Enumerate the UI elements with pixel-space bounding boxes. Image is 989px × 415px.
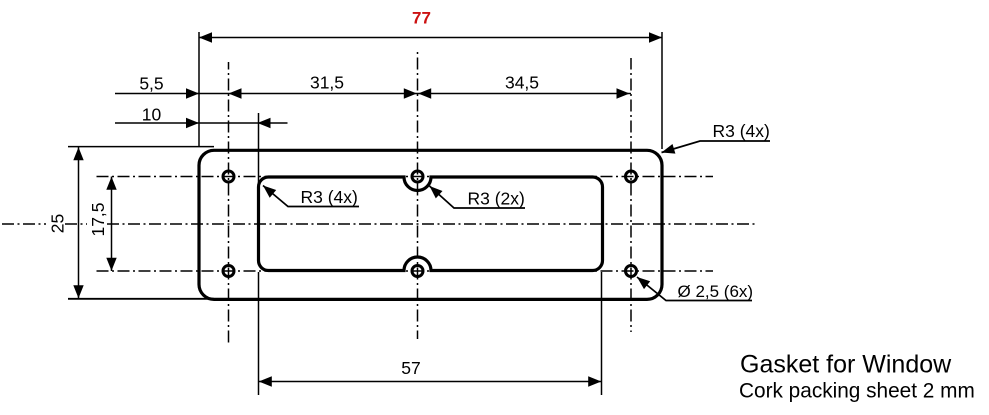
leader R3 (2x) notch arc: [430, 186, 526, 208]
gasket outer outline rounded rectangle 77x25: [199, 150, 662, 299]
centerline vertical middle holes x=417.5: [417, 51, 419, 339]
arrowhead 17,5 down: [106, 258, 116, 271]
arrowhead 77 left: [199, 32, 212, 42]
arrowhead 34,5 right (at x=630): [617, 88, 630, 98]
svg-text:Cork packing sheet 2 mm: Cork packing sheet 2 mm: [739, 380, 975, 403]
hole top-right 2,5: [626, 171, 637, 182]
arrowhead 77 right: [649, 32, 662, 42]
arrowhead 34,5 left (at x=418): [418, 88, 431, 98]
svg-text:Gasket for Window: Gasket for Window: [740, 351, 952, 379]
label 25 (rotated): [46, 211, 65, 236]
extension line upper for 10 dim (cutout left edge produced): [258, 113, 260, 186]
dimension line 25 x=78.5: [78, 147, 80, 299]
svg-text:R3 (4x): R3 (4x): [713, 121, 770, 141]
arrowhead 25 down: [73, 285, 83, 298]
centerline horizontal bottom hole row y=271: [93, 270, 713, 272]
leader R3 (4x) inner corner: [263, 186, 359, 207]
extension line left for 77 dim: [198, 32, 200, 147]
gasket inner window cutout with R3 notches: [259, 177, 603, 271]
dimension line 10 y=123: [115, 122, 288, 124]
leader diameter 2,5 hole: [637, 277, 752, 301]
centerline horizontal top hole row y=176.5: [93, 176, 713, 178]
extension line left for 57 dim: [258, 272, 260, 395]
svg-text:34,5: 34,5: [505, 73, 539, 93]
extension line top for 25 dim: [68, 146, 214, 148]
svg-text:57: 57: [401, 358, 420, 378]
svg-text:10: 10: [142, 105, 162, 125]
arrowhead 25 up: [73, 147, 83, 160]
extension line right for 57 dim: [601, 272, 603, 395]
arrowhead 17,5 up: [106, 177, 116, 190]
dimension line 5,5 / 31,5 / 34,5 row y=93.5: [115, 93, 631, 95]
arrowhead 31,5 left (at x=228.5): [229, 88, 242, 98]
arrowhead 10 right (at x=257.5): [258, 118, 271, 128]
extension line right for 77 dim: [661, 32, 663, 149]
arrowhead 31,5 right (at x=417): [404, 88, 417, 98]
extension line bottom for 25 dim: [68, 298, 214, 300]
svg-text:Ø 2,5 (6x): Ø 2,5 (6x): [678, 282, 754, 301]
arrowhead 5,5 right (at x=199): [186, 88, 199, 98]
svg-text:5,5: 5,5: [139, 74, 163, 94]
hole bottom-middle 2,5: [412, 266, 423, 277]
arrowhead 57 left: [259, 376, 272, 386]
label 17,5 (rotated): [87, 202, 105, 236]
dimension line 77 (red label): [199, 37, 662, 39]
svg-text:R3 (2x): R3 (2x): [468, 189, 525, 209]
centerline horizontal main axis y=224: [2, 223, 757, 225]
svg-text:77: 77: [412, 9, 431, 28]
centerline vertical left holes x=228.5: [228, 62, 230, 344]
svg-text:17,5: 17,5: [88, 202, 108, 236]
centerline vertical right holes x=631: [630, 58, 632, 332]
svg-text:R3 (4x): R3 (4x): [301, 187, 358, 207]
dimension line 57 y=381.5: [259, 381, 602, 383]
arrowhead 57 right: [588, 376, 601, 386]
svg-text:25: 25: [48, 214, 68, 233]
arrowhead 10 left (at x=199): [186, 118, 199, 128]
dimension line 17,5 x=111.5: [111, 177, 113, 272]
hole top-middle 2,5: [412, 171, 423, 182]
leader R3 (4x) outer corner: [662, 141, 771, 153]
hole bottom-right 2,5: [626, 266, 637, 277]
svg-text:31,5: 31,5: [310, 73, 344, 93]
hole top-left 2,5: [223, 171, 234, 182]
hole bottom-left 2,5: [223, 266, 234, 277]
